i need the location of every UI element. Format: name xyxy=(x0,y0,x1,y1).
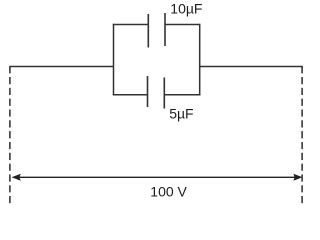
svg-text:5µF: 5µF xyxy=(169,105,193,121)
svg-text:10µF: 10µF xyxy=(170,1,202,17)
svg-text:100 V: 100 V xyxy=(150,183,187,199)
